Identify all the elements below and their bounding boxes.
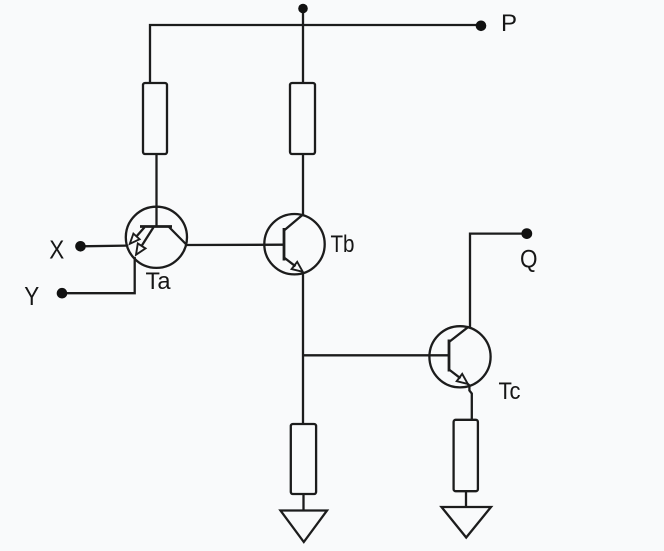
ground 2	[442, 507, 492, 538]
node Y terminal dot	[57, 288, 68, 299]
svg-text:Q: Q	[520, 245, 538, 273]
svg-text:Tb: Tb	[331, 231, 355, 258]
wire R3 to ground	[302, 494, 304, 511]
transistor Tb	[264, 214, 324, 274]
resistor R1	[143, 83, 167, 154]
svg-text:X: X	[49, 237, 64, 265]
node X terminal dot	[75, 241, 86, 252]
wire R1 to Ta base	[155, 154, 157, 227]
wire R2 to Tb collector	[302, 154, 304, 215]
transistor Tc	[429, 326, 490, 387]
wire node to Tc base	[303, 354, 449, 356]
resistor R2	[290, 83, 315, 154]
svg-text:Y: Y	[24, 283, 39, 311]
wire Tc emitter to R4	[468, 384, 472, 420]
wire Q output	[469, 234, 527, 327]
wire top center vertical	[302, 8, 304, 83]
node P terminal dot	[476, 21, 487, 32]
resistor R4	[454, 420, 478, 491]
wire input Y	[62, 257, 135, 293]
wire input X	[81, 244, 127, 247]
transistor Ta	[126, 207, 187, 268]
wire R4 to ground	[465, 491, 467, 507]
svg-text:P: P	[501, 10, 517, 37]
node Q terminal dot	[521, 228, 532, 239]
svg-text:Tc: Tc	[499, 378, 521, 405]
node junction dot top	[298, 4, 308, 14]
wire Tb emitter down	[302, 272, 304, 424]
resistor R3	[291, 424, 316, 494]
svg-text:Ta: Ta	[146, 268, 172, 295]
wire Ta collector to Tb base	[187, 244, 284, 247]
wire power rail top	[150, 25, 481, 83]
ground 1	[281, 511, 328, 543]
